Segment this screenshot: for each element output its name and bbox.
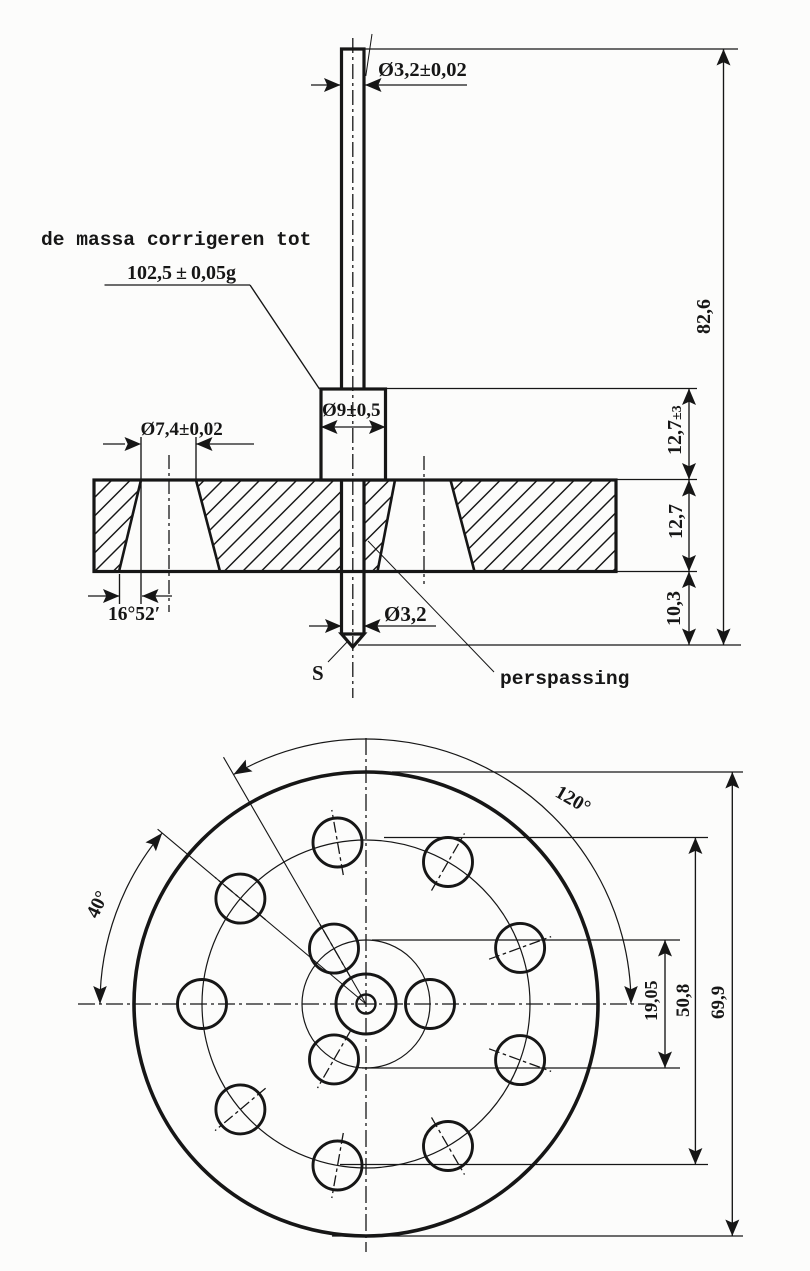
dimension 12,7 disc thickness [665,480,696,572]
extension line inner circle top tangent [372,939,680,941]
hole outer ring at -60deg [424,1117,473,1174]
extension line disc top tangent [392,771,743,773]
shaft upper part [342,49,365,389]
hub circle [336,974,396,1034]
dimension 12,7+3 hub height [664,389,696,481]
dimension 69,9 [708,772,739,1236]
label S with leader [312,641,349,686]
extension line hub top right [386,388,698,390]
hole outer ring at 20deg [489,923,551,972]
hole inner ring at 0deg [406,980,455,1029]
dimension 50,8 [673,838,702,1165]
hole outer ring at -100deg [313,1133,362,1198]
hole outer ring at 180deg [178,980,227,1029]
dimension diameter 9 +-0,5 hub [321,400,386,434]
arc dimension 40deg [83,833,162,1004]
centerline section view vertical axis [352,38,354,698]
svg-text:Ø3,2: Ø3,2 [384,602,427,626]
dimension diameter 7,4 +-0,02 left hole [103,419,254,480]
svg-text:50,8: 50,8 [673,984,694,1017]
arc dimension 120deg [234,739,638,1004]
hole inner ring at 240deg [310,1031,359,1088]
disc cross-section hatched body [94,480,616,572]
svg-text:Ø9±0,5: Ø9±0,5 [322,400,380,421]
inner bolt circle [302,940,430,1068]
tapered hole left (conical bore) [119,480,220,572]
svg-text:82,6: 82,6 [693,299,715,334]
svg-text:12,7: 12,7 [665,504,687,539]
tapered hole right (conical bore) [378,480,475,572]
svg-text:10,3: 10,3 [663,591,685,626]
dimension 19,05 [641,940,672,1068]
hub [321,389,386,480]
hole outer ring at 60deg [424,833,473,890]
svg-text:S: S [312,661,324,685]
extension line through left hole (x=141) [140,437,142,604]
centerline left hole [168,455,170,612]
svg-text:perspassing: perspassing [500,668,629,690]
svg-text:de massa corrigeren tot: de massa corrigeren tot [41,229,311,251]
extension line disc bottom tangent [332,1235,743,1237]
radial line at 140deg [158,829,366,1004]
disc outer circle [134,772,598,1236]
dimension diameter 3,2 lower shaft [309,602,436,633]
extension line bottom (tip level) [358,644,741,646]
extension line shaft top right [365,48,738,50]
shaft lower part through disc [342,480,365,634]
extension line left hole bottom corner (x=119.5) [119,574,121,604]
dimension 82,6 overall [693,49,731,645]
dimension diameter 3,2 +-0,02 top shaft [311,34,467,92]
hole outer ring at 140deg [215,874,266,923]
label perspassing with leader [368,541,629,690]
svg-text:19,05: 19,05 [641,981,661,1022]
extension line outer bolt circle bottom tangent [340,1164,708,1166]
hole inner ring at 120deg [310,920,359,977]
centerline horizontal bottom view [78,1003,652,1005]
svg-text:Ø7,4±0,02: Ø7,4±0,02 [141,419,223,440]
extension line disc bottom right [616,571,697,573]
outer bolt circle [202,840,530,1168]
hole outer ring at 100deg [313,810,362,875]
centerline right hole [423,456,425,584]
shaft hole circle [357,995,376,1014]
extension line inner circle bottom tangent [362,1067,680,1069]
extension line disc top right [616,479,697,481]
svg-text:16°52′: 16°52′ [108,604,160,625]
svg-text:Ø3,2±0,02: Ø3,2±0,02 [378,59,467,81]
svg-text:69,9: 69,9 [708,986,729,1019]
shaft cone point [342,634,365,647]
extension line outer bolt circle top tangent [384,837,708,839]
dimension 10,3 [663,572,696,646]
dimension 16deg52min taper angle [88,589,172,625]
centerline vertical bottom view [365,738,367,1252]
hole outer ring at -140deg [215,1085,266,1134]
svg-text:102,5 ± 0,05g: 102,5 ± 0,05g [127,262,236,284]
radial line at 120deg [224,757,367,1004]
leader and note: de massa corrigeren tot 102,5g [41,229,320,389]
hole outer ring at -20deg [489,1036,551,1085]
